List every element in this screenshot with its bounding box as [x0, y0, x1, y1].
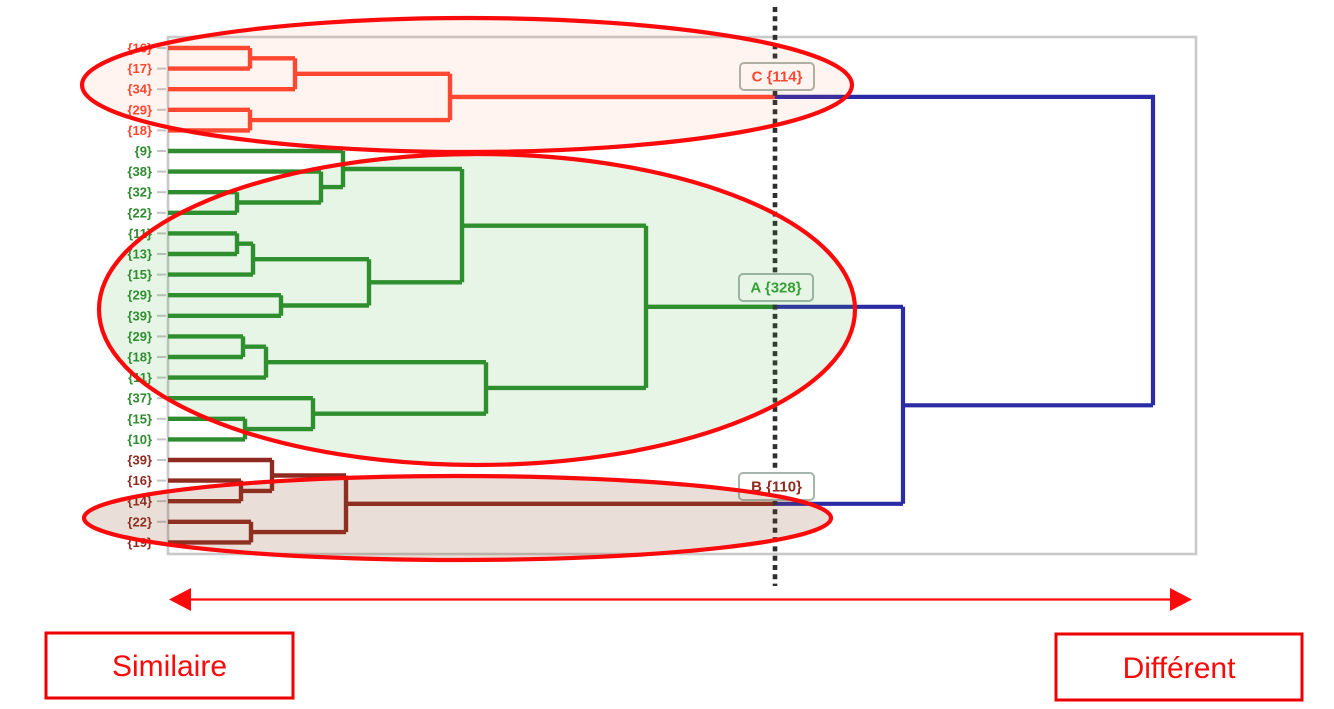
merge G14 root of A — [646, 226, 775, 388]
leaf line {18} lower — [168, 355, 243, 359]
leaf line {32} — [168, 190, 237, 194]
leaf line {16} — [168, 46, 250, 50]
cluster label C {114} — [740, 63, 814, 90]
merge G12 — [313, 398, 486, 429]
merge R1 — [250, 48, 295, 69]
merge G2 — [321, 172, 343, 203]
svg-text:Différent: Différent — [1123, 652, 1237, 685]
leaf line {18} — [168, 128, 250, 132]
merge R2 — [295, 58, 450, 89]
svg-text:{22}: {22} — [127, 205, 152, 220]
leaf line {22} — [168, 520, 251, 524]
leaf line {39} — [168, 458, 272, 462]
ellipse around cluster C — [82, 18, 852, 152]
svg-text:{18}: {18} — [127, 123, 152, 138]
merge G10 — [266, 347, 486, 378]
red cluster C dendrogram — [168, 48, 775, 130]
svg-text:{38}: {38} — [127, 164, 152, 179]
blue upper-level links — [775, 97, 1153, 504]
svg-text:{16}: {16} — [127, 473, 152, 488]
svg-text:Similaire: Similaire — [112, 650, 227, 683]
leaf line {14} — [168, 499, 241, 503]
leaf line {19} — [168, 540, 251, 544]
leaf line {15} lower — [168, 417, 245, 421]
merge G13 — [486, 362, 646, 414]
merge R4 root of C — [450, 74, 775, 120]
leaf line {34} — [168, 87, 295, 91]
box Différent — [1056, 634, 1302, 700]
merge G1 — [237, 192, 321, 213]
svg-text:{15}: {15} — [127, 411, 152, 426]
leaf line {10} — [168, 437, 245, 441]
blue link from A — [775, 305, 903, 309]
leaf line {29} — [168, 293, 281, 297]
leaf line {39} — [168, 314, 281, 318]
cluster label B {110} — [739, 473, 814, 500]
axis tick marks — [157, 48, 166, 542]
merge B3 — [251, 522, 346, 543]
leaf line {11} — [168, 231, 237, 235]
leaf line {29} — [168, 108, 250, 112]
svg-text:{9}: {9} — [135, 144, 152, 159]
leaf line {13} — [168, 252, 237, 256]
svg-text:{10}: {10} — [127, 432, 152, 447]
double arrow similarity axis — [169, 588, 1192, 611]
leaf line {22} — [168, 211, 237, 215]
leaf line {11} lower — [168, 375, 266, 379]
leaf line {38} — [168, 169, 321, 173]
box Similaire — [46, 633, 293, 698]
blue link from C — [775, 97, 1153, 405]
maroon cluster B dendrogram — [168, 460, 775, 542]
ellipse around cluster A — [99, 154, 855, 465]
merge G11 — [245, 419, 313, 440]
blue root horizontal — [903, 403, 1153, 407]
merge G5 — [253, 244, 369, 275]
merge G9 — [243, 336, 266, 357]
merge G4 — [237, 233, 253, 254]
plot frame — [168, 37, 1196, 554]
dashed threshold line — [773, 7, 778, 586]
cluster label A {328} — [739, 274, 813, 301]
ellipse around cluster B — [84, 476, 831, 560]
leaf line {29} lower — [168, 334, 243, 338]
svg-text:{32}: {32} — [127, 185, 152, 200]
merge R3 — [250, 110, 450, 131]
merge G6 — [281, 295, 369, 316]
svg-text:{39}: {39} — [127, 453, 152, 468]
leaf line {9} — [168, 149, 343, 153]
blue link from B — [775, 502, 903, 506]
merge B2 — [272, 460, 346, 491]
leaf line {37} — [168, 396, 313, 400]
merge G8 — [462, 169, 646, 282]
leaf labels — [127, 41, 152, 550]
leaf line {16} — [168, 478, 241, 482]
merge B4 root of B — [346, 476, 775, 533]
merge G7 — [369, 259, 462, 305]
green cluster A dendrogram — [168, 151, 775, 439]
merge B1 — [241, 481, 272, 502]
leaf line {17} — [168, 66, 250, 70]
svg-text:{37}: {37} — [127, 391, 152, 406]
merge G3 — [343, 151, 462, 187]
leaf line {15} — [168, 272, 253, 276]
blue vertical A+B — [901, 307, 905, 504]
